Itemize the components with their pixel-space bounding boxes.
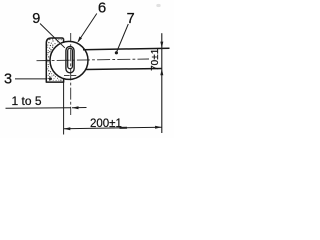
horizontal centerline	[37, 59, 150, 61]
dim line 70±1 vertical / bar right edge	[161, 33, 163, 133]
svg-text:70±1: 70±1	[150, 48, 161, 71]
svg-text:9: 9	[32, 11, 40, 27]
bar top edge	[83, 48, 170, 50]
slot inner	[68, 48, 73, 68]
leader 3	[15, 78, 46, 80]
svg-text:1 to 5: 1 to 5	[12, 94, 42, 108]
left extension line	[63, 79, 65, 135]
leader 9	[40, 24, 65, 48]
200 right arrow	[155, 126, 162, 129]
ink blotch on 200 dim line	[120, 127, 128, 129]
200 dim line	[64, 127, 162, 129]
boss circle	[50, 41, 88, 79]
note leader arrow	[72, 106, 79, 109]
svg-text:7: 7	[127, 11, 135, 27]
vertical centerline	[70, 33, 72, 115]
corner blob	[49, 77, 52, 80]
note leader 1 to 5	[6, 107, 87, 110]
leader 6 arrowhead	[77, 37, 82, 43]
leader 6	[78, 14, 97, 42]
svg-text:200±1: 200±1	[90, 118, 122, 130]
svg-text:3: 3	[4, 72, 12, 88]
svg-text:6: 6	[98, 0, 106, 17]
200 left arrow	[64, 127, 71, 130]
plate outline	[46, 38, 63, 82]
hidden dash below slot	[64, 74, 76, 76]
leader 7	[116, 24, 128, 53]
arrow up at bar bottom	[160, 69, 163, 76]
bar bottom edge	[86, 69, 162, 70]
paper smudge	[156, 4, 160, 7]
leader 7 end dot	[115, 51, 118, 54]
slot outer	[66, 46, 74, 72]
stipple texture	[47, 38, 64, 81]
arrow down at bar top	[160, 42, 163, 49]
